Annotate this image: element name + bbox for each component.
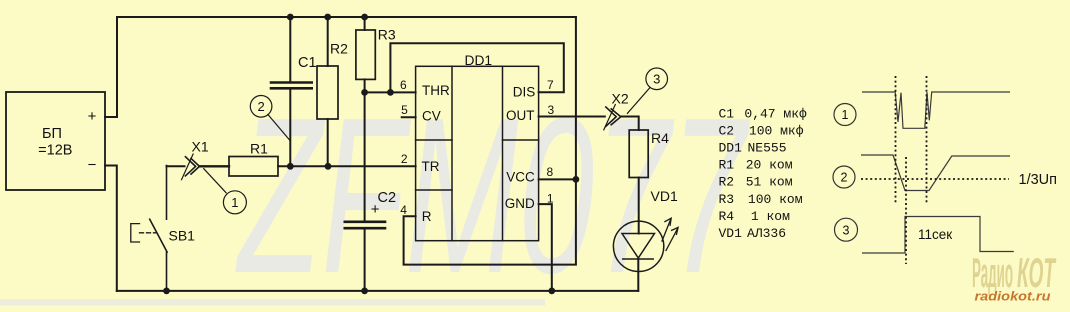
junction C1 bottom TR node bbox=[287, 163, 294, 170]
power supply BP box bbox=[6, 92, 105, 190]
junction VCC pin 8 rail bbox=[573, 176, 580, 183]
wire TR line bbox=[278, 165, 416, 167]
svg-text:C2: C2 bbox=[378, 190, 397, 206]
svg-text:TR: TR bbox=[422, 159, 440, 174]
svg-text:1/3Uп: 1/3Uп bbox=[1019, 172, 1057, 188]
svg-text:3: 3 bbox=[548, 103, 555, 117]
junction R2 bottom TR node bbox=[325, 163, 332, 170]
waveform circle 2 bbox=[833, 166, 855, 188]
watermark bottom band bbox=[0, 299, 545, 306]
svg-text:5: 5 bbox=[401, 103, 408, 117]
waveform 3 trace bbox=[862, 217, 1014, 254]
svg-text:CV: CV bbox=[422, 109, 441, 124]
wire - stub and left rail bbox=[105, 166, 117, 291]
svg-text:VD1АЛ336: VD1АЛ336 bbox=[719, 226, 787, 241]
svg-text:DIS: DIS bbox=[513, 85, 536, 100]
svg-text:1: 1 bbox=[842, 108, 849, 122]
svg-text:4: 4 bbox=[400, 203, 407, 217]
svg-text:R1: R1 bbox=[250, 141, 268, 157]
waveform 2 trace bbox=[861, 155, 1010, 191]
LED VD1 bbox=[613, 218, 678, 291]
svg-text:C2100 мкф: C2100 мкф bbox=[719, 124, 804, 139]
svg-text:8: 8 bbox=[546, 165, 553, 179]
wire X1 to R1 bbox=[200, 165, 230, 167]
node circle 1 bbox=[203, 168, 246, 214]
svg-text:7: 7 bbox=[547, 78, 554, 92]
svg-text:C1: C1 bbox=[298, 55, 317, 71]
wire top rail bbox=[117, 16, 576, 18]
switch SB1 bbox=[131, 166, 167, 291]
resistor R1 bbox=[229, 157, 278, 177]
svg-text:R2: R2 bbox=[330, 41, 348, 57]
node circle 2 bbox=[250, 96, 290, 141]
junction GND bottom rail bbox=[548, 288, 555, 295]
svg-text:R3100 ком: R3100 ком bbox=[719, 192, 803, 207]
junction DIS loop THR node bbox=[387, 89, 394, 96]
svg-text:2: 2 bbox=[401, 152, 408, 166]
svg-text:2: 2 bbox=[257, 99, 264, 114]
wire X2 to R4 bbox=[621, 117, 639, 131]
waveform circle 1 bbox=[834, 104, 856, 126]
svg-text:R4: R4 bbox=[651, 130, 669, 146]
svg-text:=12В: =12В bbox=[38, 143, 72, 159]
wire CV stub pin5 bbox=[402, 116, 416, 118]
svg-text:R41 ком: R41 ком bbox=[719, 209, 791, 224]
op-amp timer DD1 box bbox=[416, 66, 539, 240]
svg-text:radiokot.ru: radiokot.ru bbox=[975, 289, 1051, 304]
wire THR line bbox=[365, 91, 416, 93]
svg-text:VD1: VD1 bbox=[651, 188, 678, 204]
wire + stub bbox=[105, 17, 117, 117]
resistor R2 bbox=[317, 17, 338, 166]
svg-text:1: 1 bbox=[231, 195, 238, 210]
svg-text:C10,47 мкф: C10,47 мкф bbox=[719, 107, 808, 122]
svg-text:3: 3 bbox=[843, 223, 850, 237]
svg-text:R3: R3 bbox=[378, 26, 396, 42]
svg-text:DD1NE555: DD1NE555 bbox=[719, 141, 787, 156]
connector X1 bbox=[167, 154, 200, 180]
svg-text:GND: GND bbox=[505, 196, 535, 211]
waveform circle 3 bbox=[835, 218, 858, 241]
junction SB1 bottom rail bbox=[163, 288, 170, 295]
junction C2 bottom rail bbox=[361, 288, 368, 295]
dotted vertical t1 bbox=[895, 76, 897, 203]
junction C1 top rail bbox=[287, 14, 294, 21]
svg-text:X1: X1 bbox=[192, 139, 209, 155]
capacitor C2 bbox=[345, 222, 385, 291]
svg-text:11сек: 11сек bbox=[918, 227, 952, 242]
dotted vertical t3 bbox=[905, 157, 907, 264]
junction R2 top rail bbox=[324, 14, 331, 21]
wire VCC rail bbox=[404, 17, 576, 265]
svg-text:3: 3 bbox=[653, 72, 660, 87]
wire VCC stub pin8 bbox=[539, 178, 576, 180]
svg-text:DD1: DD1 bbox=[465, 53, 493, 68]
svg-text:SB1: SB1 bbox=[169, 228, 196, 244]
junction R3 top rail bbox=[361, 14, 368, 21]
svg-text:R251 ком: R251 ком bbox=[719, 175, 793, 190]
svg-text:THR: THR bbox=[422, 83, 450, 98]
svg-text:БП: БП bbox=[42, 126, 62, 142]
connector X2 bbox=[604, 105, 621, 130]
svg-text:X2: X2 bbox=[612, 91, 629, 107]
wire DIS loop bbox=[390, 43, 563, 92]
svg-text:2: 2 bbox=[841, 171, 848, 185]
dotted vertical t2 bbox=[926, 76, 928, 203]
dotted threshold line 1/3Up bbox=[861, 178, 1009, 180]
svg-text:R: R bbox=[422, 209, 432, 224]
svg-text:VCC: VCC bbox=[506, 170, 535, 185]
waveform 1 trace bbox=[862, 92, 1010, 128]
resistor R3 bbox=[356, 17, 375, 92]
resistor R4 bbox=[629, 130, 648, 178]
wire bottom rail bbox=[117, 290, 638, 292]
svg-text:1: 1 bbox=[547, 192, 554, 206]
parts list bbox=[719, 107, 808, 242]
wire THR node to C2 bbox=[364, 92, 366, 220]
svg-text:R120 ком: R120 ком bbox=[719, 158, 793, 173]
wire OUT pin3 bbox=[539, 116, 605, 118]
wire GND pin1 bbox=[539, 204, 552, 291]
node circle 3 bbox=[627, 68, 668, 114]
svg-text:+: + bbox=[88, 108, 97, 125]
svg-text:6: 6 bbox=[400, 78, 407, 92]
wire R4 to LED bbox=[638, 178, 640, 234]
junction R3 bottom THR node bbox=[361, 89, 368, 96]
svg-text:+: + bbox=[371, 201, 380, 218]
svg-text:OUT: OUT bbox=[506, 108, 535, 123]
svg-text:−: − bbox=[88, 157, 97, 174]
pin numbers bbox=[400, 78, 555, 217]
capacitor C1 bbox=[271, 17, 312, 166]
